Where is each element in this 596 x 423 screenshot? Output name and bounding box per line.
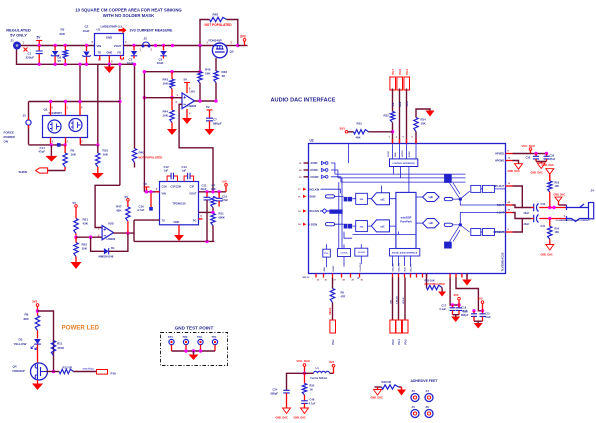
- svg-text:PurePath: PurePath: [400, 220, 412, 224]
- svg-text:10K: 10K: [205, 72, 211, 76]
- wire bypass cluster1: [450, 278, 459, 306]
- resistor R48 not populated: [210, 17, 227, 21]
- svg-text:sdC: sdC: [380, 199, 385, 202]
- wire to C24: [287, 373, 305, 390]
- wire DIN to DAC: [399, 89, 401, 144]
- svg-text:Q4: Q4: [13, 365, 17, 369]
- wire left drop to J3: [28, 102, 30, 145]
- wire HP caps gnd: [536, 160, 547, 162]
- svg-text:C10: C10: [222, 195, 228, 199]
- svg-text:20uF: 20uF: [524, 212, 530, 215]
- svg-text:GND: GND: [107, 51, 113, 55]
- svg-text:U3: U3: [310, 139, 314, 143]
- zener diode D2: [54, 46, 56, 51]
- svg-text:LM393: LM393: [188, 104, 197, 108]
- connector J3 force power: [26, 120, 31, 125]
- svg-text:D1: D1: [111, 246, 115, 250]
- wire LRCLK drop: [398, 278, 400, 321]
- svg-text:R8: R8: [341, 291, 345, 295]
- svg-text:47R: 47R: [341, 295, 346, 299]
- svg-text:sdC: sdC: [428, 195, 433, 199]
- regulator U1 LM2937: [95, 34, 124, 56]
- wire Q4 gate: [46, 371, 59, 373]
- svg-text:MCLK: MCLK: [329, 307, 332, 314]
- wire cluster1 gnd: [453, 314, 460, 316]
- svg-text:AVDD: AVDD: [311, 162, 318, 165]
- svg-text:GND_DAC: GND_DAC: [541, 254, 554, 257]
- svg-text:10K: 10K: [71, 153, 77, 157]
- wire ring to jack: [550, 218, 567, 220]
- capacitor C40 20uF: [534, 204, 539, 212]
- ground at R50: [438, 292, 446, 297]
- U3 interpolation L: [356, 193, 368, 204]
- op-amp U2B LM393: [102, 226, 113, 240]
- U3 control verticals: [393, 144, 417, 193]
- wire Q3 gate: [215, 58, 217, 71]
- dashed enclosure gnd test points: [161, 333, 228, 366]
- wire FB: [199, 211, 214, 213]
- transistor Q1 fet A: [48, 120, 61, 133]
- net flag P9-6: [390, 320, 396, 333]
- svg-text:VCC_DAC: VCC_DAC: [522, 144, 536, 148]
- svg-text:POWER: POWER: [4, 135, 16, 139]
- svg-text:C2P: C2P: [190, 186, 195, 189]
- svg-text:C40: C40: [541, 203, 546, 206]
- svg-text:10K: 10K: [555, 231, 560, 234]
- U3 clock divider 2: [355, 248, 368, 256]
- svg-text:P9-6: P9-6: [392, 339, 395, 345]
- svg-text:C1P/C2M: C1P/C2M: [171, 186, 181, 189]
- svg-text:HPROUT: HPROUT: [493, 231, 504, 234]
- ground cluster2: [474, 323, 483, 329]
- power flag 3V3 net: [244, 41, 246, 46]
- svg-text:TPS60130: TPS60130: [172, 202, 186, 206]
- ground at TPS: [178, 225, 180, 235]
- charge pump U4 TPS60130: [160, 182, 199, 225]
- svg-text:5V: 5V: [144, 182, 148, 186]
- net flag P9-1 MCLK: [330, 320, 336, 333]
- svg-text:SHDN: SHDN: [19, 170, 28, 174]
- wire ROUT: [513, 205, 523, 208]
- capacitor C18 0.1uF: [473, 311, 475, 314]
- svg-text:5V ONLY: 5V ONLY: [10, 32, 27, 37]
- svg-text:ON: ON: [4, 140, 9, 144]
- net arrow 3V3 current measure: [119, 27, 127, 33]
- svg-text:30K: 30K: [211, 187, 216, 191]
- svg-text:LRCIN: LRCIN: [310, 223, 318, 226]
- svg-text:60K: 60K: [60, 32, 66, 36]
- svg-text:DEMP: DEMP: [333, 265, 335, 272]
- power flag 3V3 cluster1: [458, 300, 460, 305]
- wire R45 to comparator out: [199, 83, 201, 102]
- TPS PG pin stub: [199, 218, 203, 220]
- wire to U2A in+: [172, 97, 182, 99]
- svg-text:P9-5: P9-5: [398, 68, 402, 74]
- test point TP3: [198, 339, 203, 344]
- svg-text:VOUT: VOUT: [114, 44, 122, 48]
- svg-text:DACDAT: DACDAT: [392, 262, 395, 271]
- svg-text:C2: C2: [85, 25, 89, 29]
- inductor L4 ferrite: [305, 372, 314, 374]
- svg-text:GND: GND: [106, 36, 112, 40]
- U3 internal clamp at DVDD: [322, 168, 325, 171]
- capacitor C10 47pF: [218, 192, 220, 198]
- svg-text:20uF: 20uF: [524, 223, 530, 226]
- ground at R10: [92, 173, 104, 179]
- adhesive foot Z5: [411, 410, 419, 418]
- ground cluster1: [451, 317, 460, 323]
- ground at test points: [189, 355, 199, 361]
- U3 PLL block: [323, 249, 331, 257]
- resistor R34 10K: [416, 109, 430, 118]
- svg-text:10K: 10K: [421, 122, 426, 126]
- net flag P9-7: [390, 77, 396, 90]
- wire CLK to DAC: [406, 89, 408, 144]
- svg-text:FB: FB: [118, 51, 122, 55]
- svg-text:10uF: 10uF: [127, 61, 134, 65]
- resistor R47 43K pullup: [127, 199, 130, 202]
- wire pullup to CS: [369, 131, 393, 133]
- resistor R12 0R: [59, 369, 73, 373]
- svg-text:22uF: 22uF: [201, 187, 207, 191]
- svg-text:LM2937IMP-3.3: LM2937IMP-3.3: [101, 25, 123, 29]
- svg-text:PLL: PLL: [324, 253, 329, 255]
- svg-text:P9-1: P9-1: [332, 339, 335, 345]
- svg-text:R48: R48: [213, 13, 219, 17]
- ground at C7: [205, 129, 215, 135]
- svg-text:10K: 10K: [163, 82, 169, 86]
- wire TPS gnd loop: [134, 240, 214, 242]
- power flag 5V near C7: [209, 110, 211, 118]
- wire rail to R45: [199, 46, 201, 72]
- svg-text:U2B: U2B: [108, 222, 114, 226]
- junction U1 gnd: [108, 63, 111, 66]
- svg-text:GND_DAC: GND_DAC: [276, 417, 289, 420]
- adhesive foot Z3: [411, 394, 419, 402]
- svg-text:TD: TD: [98, 51, 102, 55]
- diode D6: [163, 46, 165, 51]
- svg-text:LRCLK: LRCLK: [397, 296, 399, 304]
- svg-text:AINL: AINL: [323, 266, 326, 272]
- svg-text:R31: R31: [219, 212, 225, 216]
- svg-text:5V: 5V: [206, 105, 210, 109]
- svg-text:LM393: LM393: [107, 237, 116, 241]
- power flag 3V3 pullup: [345, 131, 348, 134]
- power flag 5V on rail: [38, 41, 40, 46]
- wire LOUT: [513, 213, 523, 219]
- resistor R53 10K: [548, 181, 552, 192]
- svg-text:GND_DAC: GND_DAC: [508, 170, 521, 173]
- wire to R11: [38, 311, 54, 372]
- wire divider to feedback node: [144, 97, 172, 99]
- svg-text:Z3: Z3: [412, 389, 416, 393]
- svg-text:D3: D3: [19, 338, 23, 342]
- svg-text:NOT POPULATED: NOT POPULATED: [425, 283, 446, 286]
- resistor R44 10K to gnd: [170, 110, 174, 123]
- U3 interpolation R: [356, 221, 368, 232]
- svg-text:Ferrite 600mA: Ferrite 600mA: [311, 377, 328, 380]
- svg-text:NOT POPULATED: NOT POPULATED: [139, 156, 163, 160]
- svg-text:DIGITAL AUDIO INTERFACE: DIGITAL AUDIO INTERFACE: [392, 252, 418, 255]
- U3 pop suppress R: [444, 242, 452, 249]
- junction rail-D5: [85, 44, 88, 47]
- svg-text:P16: P16: [111, 372, 117, 376]
- svg-text:DACLRC: DACLRC: [398, 262, 401, 271]
- wire HPLOUT: [513, 186, 532, 208]
- U3 left pins power: [304, 162, 309, 164]
- svg-text:C38: C38: [526, 157, 531, 160]
- svg-text:CLOCK: CLOCK: [340, 253, 348, 255]
- svg-text:10uF: 10uF: [485, 316, 491, 319]
- svg-text:1K: 1K: [310, 388, 313, 392]
- svg-text:C12: C12: [164, 165, 170, 169]
- LED D3 yellow: [34, 339, 41, 344]
- svg-text:GND: GND: [174, 220, 180, 224]
- U3 clock divider 1: [338, 249, 351, 257]
- TPS pin stubs: [156, 191, 160, 193]
- svg-text:3V3: 3V3: [340, 127, 346, 131]
- svg-text:TLV320DAC23: TLV320DAC23: [501, 252, 505, 271]
- svg-text:3V3: 3V3: [454, 293, 459, 297]
- transistor Q3 PMOS: [212, 43, 227, 58]
- wire Q1 bottom: [29, 144, 66, 146]
- net flag P9-3: [404, 77, 410, 90]
- flag SHDN: [48, 170, 66, 172]
- svg-text:10uF: 10uF: [157, 61, 164, 65]
- svg-text:Q3: Q3: [230, 50, 234, 54]
- svg-text:BCLKIN: BCLKIN: [310, 210, 320, 213]
- resistor R33 46K: [354, 130, 369, 134]
- svg-text:GND_DAC: GND_DAC: [542, 164, 555, 167]
- U3 mixer to line outs: [460, 201, 505, 223]
- svg-text:5V: 5V: [184, 78, 188, 82]
- resistor R46 4K: [214, 71, 218, 83]
- svg-text:SCLK: SCLK: [388, 151, 390, 157]
- svg-text:MMSD4148: MMSD4148: [99, 255, 114, 259]
- svg-text:miniDSP: miniDSP: [401, 216, 412, 220]
- svg-text:MOSI: MOSI: [409, 151, 411, 157]
- U3 output stage R: [471, 229, 481, 236]
- svg-text:C41: C41: [541, 225, 546, 228]
- svg-text:680pF: 680pF: [461, 314, 469, 317]
- svg-text:watchdog: watchdog: [83, 367, 95, 371]
- analog ground GND_DAC at HPGND: [515, 164, 523, 170]
- wire HPROUT: [513, 219, 532, 233]
- svg-text:CS: CS: [391, 103, 395, 107]
- wire bypass cluster2: [456, 278, 483, 311]
- svg-text:C24: C24: [273, 388, 278, 392]
- capacitor C41 20uF: [534, 215, 539, 223]
- svg-text:10 SQUARE CM COPPER AREA FOR: 10 SQUARE CM COPPER AREA FOR HEAT SINKIN…: [75, 8, 182, 13]
- svg-text:DIN: DIN: [391, 299, 393, 303]
- transistor Q1 dual PMOS Si4435: [43, 116, 88, 138]
- svg-text:680pF: 680pF: [213, 122, 222, 126]
- svg-text:R32: R32: [384, 114, 390, 118]
- svg-text:R50 10K: R50 10K: [425, 279, 435, 283]
- analog ground GND_DAC at C24: [283, 408, 291, 414]
- U3 row2 input chain: [326, 223, 335, 226]
- analog ground GND_DAC at R49: [374, 390, 382, 396]
- resistor R35 1K: [304, 373, 306, 383]
- U3 clock receiver pill: [329, 210, 342, 214]
- svg-text:R7: R7: [212, 184, 216, 188]
- svg-text:4.7uF: 4.7uF: [309, 402, 316, 406]
- test point TP2: [183, 339, 188, 344]
- svg-text:J3: J3: [23, 114, 27, 118]
- wire cluster2 gnd: [474, 320, 483, 322]
- resistor R45 10K: [198, 72, 202, 83]
- svg-text:HPLOUT: HPLOUT: [494, 185, 505, 188]
- wire input return / gnd bus: [17, 50, 135, 65]
- op-amp U2A LM393: [182, 93, 195, 109]
- svg-text:10K: 10K: [163, 114, 169, 118]
- svg-text:10K: 10K: [555, 185, 560, 188]
- Q1 top pin stubs: [50, 102, 52, 116]
- feedback diode D1 MMSD4148 loop: [91, 237, 104, 251]
- svg-text:Z4: Z4: [426, 389, 430, 393]
- wire VOUT: [199, 191, 227, 193]
- capacitor C15 10uF: [482, 311, 484, 314]
- svg-text:VCC_DAC: VCC_DAC: [297, 359, 311, 363]
- svg-text:SDIN: SDIN: [310, 196, 316, 199]
- resistor R50 not populated: [426, 274, 428, 288]
- capacitor C12 1uF: [167, 176, 177, 182]
- svg-text:1uF: 1uF: [164, 169, 169, 173]
- U3 bottom internal wires: [327, 244, 411, 267]
- wire U2B output: [114, 232, 135, 234]
- svg-text:R33: R33: [357, 122, 363, 126]
- transistor Q1 fet B: [69, 119, 82, 132]
- resistor R51 43K: [74, 219, 78, 234]
- svg-text:DIN: DIN: [398, 102, 402, 107]
- svg-text:GND_DAC: GND_DAC: [531, 172, 544, 175]
- wire Q1 top bus: [29, 101, 120, 103]
- svg-text:3V3: 3V3: [240, 35, 246, 39]
- wire vertical to Q1: [79, 64, 81, 101]
- svg-text:GND_DAC: GND_DAC: [371, 397, 384, 400]
- wire vertical to TPS VIN: [143, 72, 145, 192]
- svg-text:MK SC: MK SC: [303, 277, 310, 279]
- capacitor C7 680pF: [206, 118, 213, 121]
- svg-text:GND TEST POINT: GND TEST POINT: [175, 326, 214, 331]
- U3 control interface block: [390, 159, 418, 167]
- headphone jack J4: [567, 204, 590, 222]
- net flag P16: [97, 370, 108, 375]
- test point TP1: [169, 339, 174, 344]
- svg-text:R11: R11: [57, 342, 63, 346]
- wire CS to DAC: [392, 89, 394, 112]
- svg-text:Q1: Q1: [44, 108, 48, 112]
- U3 digital audio interface: [390, 249, 420, 257]
- net flag P9-4: [396, 320, 402, 333]
- U3 DAC modulator R: [371, 220, 389, 232]
- power flag 5V at R51: [75, 205, 78, 208]
- svg-text:CLOCK: CLOCK: [358, 252, 366, 254]
- svg-text:HPGND: HPGND: [495, 160, 504, 163]
- jumper J2 current measure: [143, 42, 150, 46]
- svg-text:VOUT: VOUT: [189, 192, 197, 196]
- svg-text:TP3: TP3: [197, 335, 202, 339]
- wire to U2B in-: [76, 236, 102, 238]
- capacitor C16 4.7uF: [150, 192, 152, 207]
- svg-text:NOT POPULATED: NOT POPULATED: [205, 23, 233, 27]
- svg-text:3V3: 3V3: [32, 300, 38, 304]
- svg-text:C48: C48: [310, 398, 315, 402]
- svg-text:P9-2: P9-2: [405, 339, 408, 345]
- junction rail-C1: [38, 44, 41, 47]
- svg-text:5V: 5V: [58, 59, 62, 63]
- U3 BCLK buffer diamond: [320, 209, 331, 214]
- analog ground GND_DAC at C48: [301, 408, 309, 414]
- U3 left pins signals: [303, 188, 306, 191]
- wire BCLK drop: [404, 278, 406, 321]
- svg-text:+5V: +5V: [222, 180, 227, 184]
- U3 top pin stubs: [392, 139, 394, 144]
- svg-text:3.5 HEADPHONE JACK STEREO: 3.5 HEADPHONE JACK STEREO: [556, 219, 590, 222]
- U3 bus lines: [335, 174, 466, 182]
- svg-text:GND_DAC: GND_DAC: [294, 417, 307, 420]
- wire U2B out to TS pin: [134, 219, 160, 221]
- svg-text:R35: R35: [310, 384, 315, 388]
- capacitor C13 1uF: [184, 176, 194, 182]
- resistor R54 10K: [548, 226, 552, 239]
- svg-text:680: 680: [24, 317, 29, 321]
- test point TP4: [212, 339, 217, 344]
- svg-text:5V: 5V: [125, 195, 129, 199]
- svg-text:BCK: BCK: [405, 266, 407, 271]
- svg-text:220uF: 220uF: [26, 56, 35, 60]
- U3 right pins: [506, 153, 513, 155]
- wire HPGND: [513, 161, 519, 164]
- svg-text:R6: R6: [25, 313, 29, 317]
- net flag P9-5: [397, 77, 403, 90]
- U3 internal clamp at IOVDD: [322, 175, 325, 178]
- svg-text:C11: C11: [202, 184, 207, 188]
- wire 5V input rail: [17, 45, 95, 47]
- Q1 bottom pin stubs: [50, 138, 52, 145]
- net flag P9-2: [402, 320, 408, 333]
- wire vertical long to U2B: [119, 64, 121, 185]
- capacitor C11 22uF: [206, 192, 208, 197]
- svg-text:10K: 10K: [103, 153, 109, 157]
- svg-text:680pF: 680pF: [271, 392, 279, 396]
- capacitor C39 47uF: [546, 154, 548, 157]
- diode D5: [86, 46, 88, 52]
- svg-text:3V3: 3V3: [329, 360, 334, 364]
- polarity mark: [24, 48, 28, 52]
- transistor Q4: [31, 363, 48, 380]
- svg-text:47uF: 47uF: [550, 158, 556, 161]
- svg-text:J1: J1: [11, 39, 15, 43]
- jack J4 barrel: [589, 203, 594, 219]
- svg-text:P9-4: P9-4: [398, 339, 401, 345]
- svg-text:ADHESIVE FEET: ADHESIVE FEET: [411, 379, 439, 383]
- U3 miniDSP block: [396, 192, 416, 248]
- svg-text:3V3: 3V3: [478, 297, 483, 301]
- capacitor C19 10uF: [458, 305, 460, 308]
- svg-text:43K: 43K: [83, 222, 89, 226]
- svg-text:C1M: C1M: [162, 186, 167, 189]
- svg-text:sdC: sdC: [380, 226, 385, 229]
- ground at R34: [426, 111, 435, 117]
- svg-text:FDN340P: FDN340P: [209, 39, 222, 43]
- analog ground GND_DAC at HP caps: [537, 163, 545, 169]
- svg-text:SDA: SDA: [394, 152, 397, 157]
- capacitor C38: [531, 153, 547, 155]
- resistor R32 inline: [390, 112, 394, 123]
- svg-text:P9-7: P9-7: [391, 68, 395, 74]
- junction divider mid: [170, 96, 173, 99]
